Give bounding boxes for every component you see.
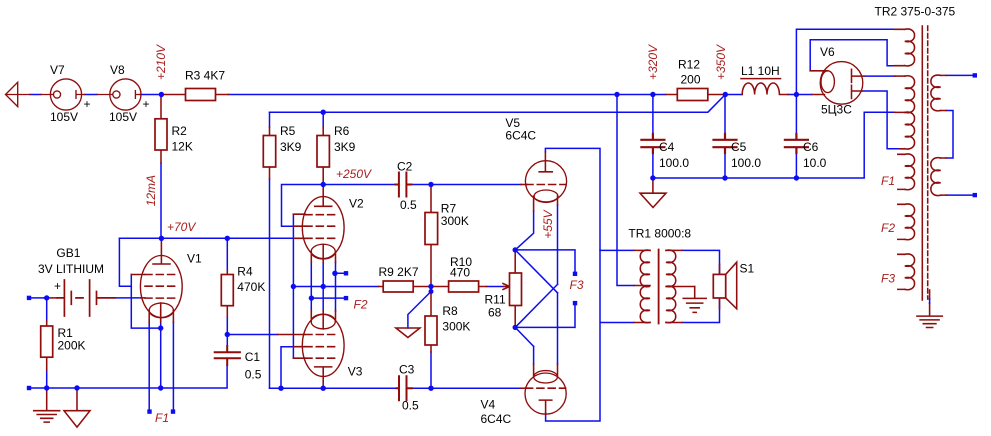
node R7 R8 R9 R10 — [428, 284, 433, 289]
node top rail C4 — [650, 92, 655, 97]
wire input terminal to GB1 — [31, 297, 44, 299]
svg-text:200K: 200K — [58, 339, 86, 353]
wire V6 plate1 to TR2 w2 — [864, 75, 895, 77]
battery V8 — [97, 79, 141, 110]
transformer TR2 heater winding F2 — [898, 204, 915, 240]
triode V1 — [131, 238, 182, 322]
wire B+ vertical to TR1 center tap — [617, 95, 634, 286]
wire bus2 y388.2 — [270, 387, 522, 389]
svg-text:TR2 375-0-375: TR2 375-0-375 — [875, 5, 956, 19]
wire R11 X-cross top node — [515, 211, 575, 293]
battery GB1 — [44, 280, 115, 316]
transformer TR2 winding w3 with center tap — [895, 112, 915, 149]
svg-text:200: 200 — [681, 73, 701, 87]
node X bottom — [513, 325, 518, 330]
wire C1 top lead — [226, 335, 228, 347]
ground symbol below R1 — [34, 388, 60, 422]
output tube V4 — [521, 364, 566, 414]
svg-text:F1: F1 — [881, 174, 895, 188]
svg-text:6C4C: 6C4C — [481, 412, 512, 426]
svg-text:V7: V7 — [50, 63, 65, 77]
svg-text:R2: R2 — [172, 124, 188, 138]
capacitor C6 — [785, 134, 808, 153]
wire R1 leads — [46, 298, 48, 388]
node +70V R2 — [159, 236, 164, 241]
node V2 V3 cathodes — [321, 284, 326, 289]
svg-text:GB1: GB1 — [56, 246, 80, 260]
svg-text:+350V: +350V — [714, 44, 728, 80]
node +250V plate V2 — [321, 182, 326, 187]
wire +70 rail y238.3 — [119, 237, 294, 239]
svg-text:5Ц3С: 5Ц3С — [821, 103, 852, 117]
terminal F1 left — [147, 409, 151, 413]
wire R4 leads — [226, 238, 228, 334]
wire V5 plate to TR1 primary top — [545, 148, 634, 250]
DOTS-LAYER — [27, 73, 977, 414]
wire ground bus1 y388 — [29, 365, 227, 388]
svg-text:300K: 300K — [442, 320, 470, 334]
wire R9 line y286.5 — [293, 286, 378, 288]
svg-text:470K: 470K — [237, 280, 265, 294]
node GB1 R1 — [44, 295, 49, 300]
resistor R5 — [263, 127, 275, 179]
transformer TR1 core — [658, 250, 660, 324]
node C2 R7 — [428, 182, 433, 187]
capacitor C3 — [397, 376, 412, 400]
svg-text:S1: S1 — [740, 262, 755, 276]
node bus1 R1 — [44, 385, 49, 390]
svg-text:F2: F2 — [881, 221, 895, 235]
svg-text:R5: R5 — [280, 124, 296, 138]
transformer TR2 winding w2 — [895, 76, 915, 113]
wire V2 V3 cathode center — [322, 263, 324, 311]
svg-text:TR1 8000:8: TR1 8000:8 — [628, 227, 691, 241]
terminal input lower — [27, 386, 31, 390]
potentiometer R11 — [503, 250, 522, 328]
node top rail R2 — [159, 92, 164, 97]
svg-text:+210V: +210V — [154, 44, 168, 80]
wire TR2 right winding series link — [946, 111, 953, 159]
battery V7 — [41, 79, 84, 110]
node bus1 chassis — [74, 385, 79, 390]
node bus2 V3 plate — [321, 386, 326, 391]
resistor R1 — [41, 321, 53, 370]
svg-text:10.0: 10.0 — [803, 156, 827, 170]
svg-text:R3 4K7: R3 4K7 — [185, 69, 225, 83]
svg-text:0.5: 0.5 — [400, 198, 417, 212]
wire R5 branch down to bus2 — [269, 112, 271, 388]
svg-text:V1: V1 — [187, 252, 202, 266]
svg-text:V4: V4 — [481, 398, 496, 412]
wire V2 plate jog — [282, 185, 324, 227]
svg-text:68: 68 — [488, 306, 502, 320]
wire R6 top lead — [322, 112, 324, 127]
wire V1 grid row1 jog — [131, 275, 160, 329]
svg-text:300K: 300K — [441, 214, 469, 228]
wire R11 X-cross bottom node — [515, 284, 575, 346]
svg-text:R11: R11 — [485, 293, 506, 307]
wire TR2 w1 top lead to B+ node — [796, 29, 894, 94]
resistor R8 — [425, 287, 437, 353]
node top rail B+ — [614, 92, 619, 97]
wire +70 rail left jog — [119, 238, 131, 286]
wire top rail segments — [30, 94, 812, 96]
svg-text:F3: F3 — [570, 278, 584, 292]
svg-text:+: + — [84, 97, 91, 111]
svg-text:C6: C6 — [803, 140, 819, 154]
svg-text:3V LITHIUM: 3V LITHIUM — [38, 262, 104, 276]
terminal TR2 primary bottom — [973, 193, 977, 197]
svg-text:3K9: 3K9 — [334, 140, 356, 154]
transformer TR1 primary — [634, 250, 650, 323]
chassis ground triangle — [64, 388, 90, 427]
ground at TR1 secondary — [683, 287, 706, 313]
output tube V5 — [521, 152, 567, 211]
wire C4 C5 C6 leads — [653, 95, 797, 179]
wire ground bus y178 to TR2 center tap — [653, 112, 895, 178]
node C5 bus — [722, 175, 727, 180]
svg-text:3K9: 3K9 — [280, 140, 302, 154]
svg-text:100.0: 100.0 — [659, 156, 689, 170]
wire R4 to V3 grid line y334.5 — [227, 334, 277, 336]
speaker S1 — [713, 262, 736, 309]
terminal TR2 primary top — [973, 73, 977, 77]
node bus1 V1 cathode — [158, 385, 163, 390]
wire V2 V3 heater verticals and stubs — [311, 262, 343, 311]
wire diagonal to ground near R8 — [408, 292, 431, 329]
node X top — [513, 247, 518, 252]
ground triangle below R8 — [396, 328, 420, 338]
svg-text:100.0: 100.0 — [731, 156, 761, 170]
wire GB1 to V1 grid — [115, 297, 141, 299]
svg-text:C4: C4 — [659, 140, 675, 154]
wire +250 line y184.5 — [323, 184, 521, 186]
resistor R10 — [431, 281, 487, 292]
svg-text:F2: F2 — [354, 298, 368, 312]
wire V3 jog from bus2 — [281, 347, 293, 389]
svg-text:V2: V2 — [349, 197, 364, 211]
resistor R9 — [379, 281, 432, 292]
svg-text:R12: R12 — [678, 58, 700, 72]
resistor R2 — [155, 95, 167, 164]
transformer TR2 primary winding B — [931, 158, 946, 196]
wire V6 filament top path — [810, 40, 895, 71]
input arrow connector — [6, 82, 31, 106]
svg-text:+55V: +55V — [541, 209, 555, 238]
transformer TR2 primary winding A — [931, 75, 946, 111]
terminal F3 upper — [573, 272, 577, 276]
svg-text:6C4C: 6C4C — [505, 129, 536, 143]
terminal F1 right — [171, 409, 175, 413]
resistor R6 — [317, 127, 329, 185]
svg-text:C3: C3 — [399, 363, 415, 377]
svg-text:105V: 105V — [109, 110, 137, 124]
svg-text:+320V: +320V — [646, 44, 660, 80]
svg-text:F3: F3 — [881, 271, 895, 285]
triode V3 — [278, 311, 345, 389]
svg-text:C1: C1 — [245, 350, 261, 364]
node F2 stub lower — [309, 295, 314, 300]
capacitor C2 — [395, 173, 411, 197]
wire V4 plate to TR1 primary bottom — [546, 250, 635, 421]
wire R2 bottom lead — [160, 163, 162, 238]
terminal F2 upper — [344, 271, 348, 275]
node +350V — [723, 92, 728, 97]
capacitor C1 — [215, 346, 240, 365]
transformer TR1 secondary — [666, 250, 695, 323]
capacitor C4 — [641, 134, 664, 153]
svg-text:R4: R4 — [237, 265, 253, 279]
wire TR2 right winding terminals — [946, 75, 973, 195]
svg-text:F1: F1 — [155, 411, 169, 425]
svg-text:C5: C5 — [731, 140, 747, 154]
svg-text:V3: V3 — [348, 365, 363, 379]
node C4 bus — [650, 175, 655, 180]
svg-text:L1 10H: L1 10H — [741, 64, 780, 78]
node diagonal tap — [429, 289, 434, 294]
node F2 stub upper — [332, 271, 337, 276]
transformer TR2 core dashed line — [927, 26, 929, 299]
ground at TR2 core — [917, 290, 942, 328]
wire V1 cathode center lead — [160, 310, 162, 388]
svg-text:12mA: 12mA — [144, 175, 158, 206]
terminal input upper — [27, 296, 31, 300]
svg-text:R9 2K7: R9 2K7 — [379, 265, 419, 279]
svg-text:470: 470 — [450, 266, 470, 280]
svg-text:R8: R8 — [442, 304, 458, 318]
svg-text:C2: C2 — [397, 160, 413, 174]
ground below C4 — [640, 178, 666, 208]
node C6 bus — [794, 175, 799, 180]
svg-text:0.5: 0.5 — [402, 399, 419, 413]
node R6 top — [321, 110, 326, 115]
resistor R4 — [221, 270, 233, 317]
node bus2 R8 V4 grid — [428, 386, 433, 391]
resistor R7 — [425, 185, 438, 287]
node R4 C1 V3 grid — [225, 332, 230, 337]
capacitor C5 — [714, 134, 737, 153]
node R9 left — [291, 284, 296, 289]
transformer TR2 core solid line — [921, 26, 923, 300]
transformer TR2 heater winding F1 — [898, 154, 915, 190]
triode V2 — [293, 185, 344, 263]
wire V5 V4 right heater verticals — [534, 205, 558, 364]
svg-text:+250V: +250V — [336, 167, 372, 181]
node V1 grid cathode jog — [158, 325, 163, 330]
wire R10 to pot arrow — [487, 286, 504, 288]
wire TR1 secondary to speaker — [682, 250, 720, 322]
terminal F2 lower — [344, 296, 348, 300]
node +70V R4 — [225, 236, 230, 241]
svg-text:12K: 12K — [172, 140, 193, 154]
resistor R3 — [161, 89, 228, 101]
svg-text:0.5: 0.5 — [245, 368, 262, 382]
svg-text:V6: V6 — [820, 45, 835, 59]
inductor L1 — [741, 79, 788, 95]
svg-text:+70V: +70V — [167, 220, 196, 234]
wire grid vertical x293.4 — [292, 214, 294, 358]
wire V1 heater leads — [149, 322, 173, 409]
resistor R12 — [666, 89, 726, 101]
svg-text:+: + — [143, 97, 150, 111]
svg-text:V8: V8 — [110, 63, 125, 77]
wire +350 rail y112 — [270, 95, 726, 113]
rectifier tube V6 — [810, 62, 864, 105]
node C6 L1 — [794, 92, 799, 97]
wire V6 plate2 to TR2 w3 — [862, 91, 900, 149]
transformer TR2 winding w1 — [895, 29, 915, 66]
svg-text:+: + — [54, 279, 61, 293]
terminal F3 lower — [573, 301, 577, 305]
wire R8 bottom lead — [430, 352, 432, 388]
node bus2 V3 jog — [278, 386, 283, 391]
svg-text:105V: 105V — [50, 110, 78, 124]
svg-text:R6: R6 — [334, 124, 350, 138]
transformer TR2 heater winding F3 — [898, 254, 915, 290]
